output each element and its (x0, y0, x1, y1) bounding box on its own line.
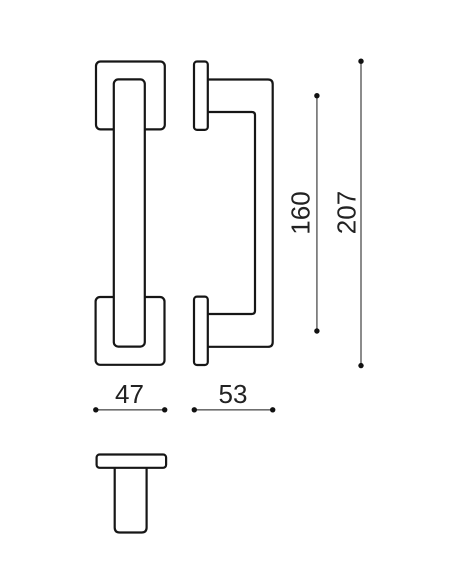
side view: bottom plate (194, 297, 208, 365)
dimension line 207 (360, 61, 362, 365)
front view: bottom square rosette (96, 297, 165, 365)
front view: top square rosette (96, 62, 165, 130)
side view: handle inner profile (208, 112, 256, 314)
side view: handle outer profile (208, 80, 273, 347)
svg-text:207: 207 (332, 191, 362, 234)
side view: top plate (194, 62, 208, 130)
dimension line 160 (316, 96, 318, 331)
svg-text:53: 53 (219, 379, 248, 409)
front view: grip bar (114, 79, 145, 346)
svg-text:160: 160 (286, 191, 316, 234)
dimension line 47 (96, 409, 165, 411)
bottom view: plate (97, 455, 167, 468)
bottom view: stem (115, 467, 147, 533)
svg-text:47: 47 (115, 379, 144, 409)
dimension line 53 (194, 409, 272, 411)
